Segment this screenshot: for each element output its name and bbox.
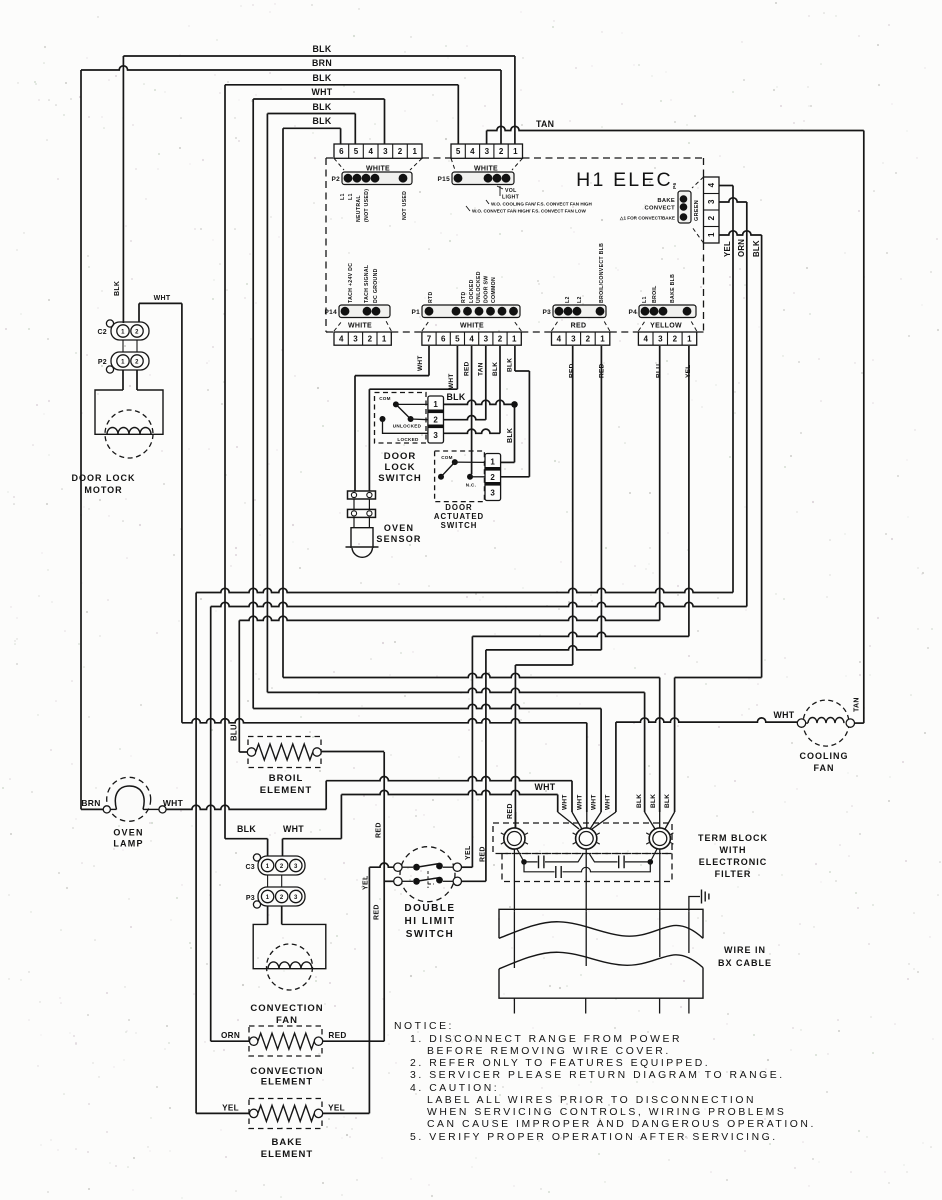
svg-text:1: 1 <box>121 359 125 365</box>
svg-text:CONVECTION: CONVECTION <box>250 1066 323 1077</box>
oven sensor <box>348 491 376 499</box>
wire BLK to C3 pin1 <box>225 838 268 840</box>
svg-text:N.C.: N.C. <box>466 483 476 488</box>
wire BLK P1 pin2 to door lock switch <box>499 346 501 433</box>
svg-text:YEL: YEL <box>723 241 732 257</box>
svg-text:C3: C3 <box>245 864 255 871</box>
svg-text:1: 1 <box>266 895 270 901</box>
term block dashed boxes <box>493 823 672 854</box>
svg-text:1. DISCONNECT RANGE FROM POWE: 1. DISCONNECT RANGE FROM POWER <box>410 1034 682 1045</box>
wire RED down to terminal 1 <box>514 665 516 828</box>
svg-text:CAN CAUSE IMPROPER AND DANGERO: CAN CAUSE IMPROPER AND DANGEROUS OPERATI… <box>427 1119 816 1130</box>
svg-text:SENSOR: SENSOR <box>376 534 421 544</box>
wire RED line D2 <box>486 646 602 650</box>
svg-text:1: 1 <box>490 458 495 467</box>
svg-text:2: 2 <box>490 473 495 482</box>
svg-text:OVEN: OVEN <box>113 828 143 838</box>
connector P14 bottom cells <box>334 332 391 345</box>
wire BRN L2 top <box>81 66 501 70</box>
svg-text:FILTER: FILTER <box>715 869 752 879</box>
svg-text:1: 1 <box>600 335 605 344</box>
svg-text:BLK: BLK <box>507 358 514 372</box>
svg-text:BAKE: BAKE <box>272 1137 303 1148</box>
svg-text:1: 1 <box>382 335 387 344</box>
connector P3 plug <box>553 305 606 318</box>
wire BLK L3 top <box>225 84 458 86</box>
svg-text:4: 4 <box>643 335 648 344</box>
svg-text:BLU: BLU <box>230 724 239 741</box>
wire RED hi-limit row2 right <box>461 880 486 882</box>
svg-text:P2: P2 <box>98 359 107 366</box>
connector P3 bottom cells <box>552 332 610 345</box>
svg-text:BLK: BLK <box>507 428 514 443</box>
svg-text:YEL: YEL <box>328 1104 345 1113</box>
svg-text:UNLOCKED: UNLOCKED <box>476 271 482 303</box>
svg-text:5: 5 <box>455 335 460 344</box>
cooling fan <box>803 700 849 746</box>
svg-text:WHITE: WHITE <box>348 323 372 330</box>
svg-text:4. CAUTION:: 4. CAUTION: <box>410 1083 499 1094</box>
svg-text:5: 5 <box>354 147 359 156</box>
svg-text:WHT: WHT <box>605 794 612 810</box>
svg-text:SWITCH: SWITCH <box>406 929 454 940</box>
wire BLK L1 top <box>123 55 515 57</box>
wire YEL down to hi-limit <box>471 636 473 867</box>
wire BLK line E2 <box>675 677 762 679</box>
svg-text:3: 3 <box>294 864 298 870</box>
svg-text:LOCK: LOCK <box>385 462 416 473</box>
svg-text:CONVECT: CONVECT <box>645 206 676 212</box>
svg-text:5. VERIFY PROPER OPERATION AF: 5. VERIFY PROPER OPERATION AFTER SERVICI… <box>410 1132 778 1143</box>
svg-text:6: 6 <box>339 147 344 156</box>
wire WHT L4 top <box>253 98 384 100</box>
svg-text:7: 7 <box>427 335 432 344</box>
svg-text:3: 3 <box>571 335 576 344</box>
svg-text:DOOR LOCK: DOOR LOCK <box>72 473 136 483</box>
connector C3 <box>258 856 305 875</box>
BX cable sheath band 1 <box>499 909 703 938</box>
svg-text:DC GROUND: DC GROUND <box>373 268 379 303</box>
svg-text:BLK: BLK <box>650 794 657 808</box>
term block terminal 2 <box>576 828 597 849</box>
svg-text:2: 2 <box>498 335 503 344</box>
svg-text:VOL: VOL <box>505 188 517 194</box>
svg-text:2: 2 <box>398 147 403 156</box>
svg-text:YEL: YEL <box>685 364 692 378</box>
wire TAN top <box>487 126 864 130</box>
wire BLK L5 top <box>267 113 355 115</box>
svg-text:BAKE: BAKE <box>657 198 675 204</box>
wire TAN right edge vertical <box>863 131 865 724</box>
door actuated switch connector 123 <box>485 454 501 501</box>
svg-text:2. REFER ONLY TO FEATURES EQU: 2. REFER ONLY TO FEATURES EQUIPPED. <box>410 1058 710 1069</box>
svg-text:BLK: BLK <box>752 240 761 257</box>
svg-text:RED: RED <box>569 363 576 378</box>
wire WHT into term2 x587 <box>586 723 588 812</box>
svg-text:COM: COM <box>379 396 391 401</box>
svg-text:4: 4 <box>470 147 475 156</box>
svg-text:3: 3 <box>383 147 388 156</box>
svg-text:BLK: BLK <box>114 281 121 296</box>
svg-text:NEUTRAL: NEUTRAL <box>356 195 362 222</box>
svg-text:1: 1 <box>266 864 270 870</box>
connector P6 GREEN bake convect <box>704 177 720 243</box>
svg-text:4: 4 <box>469 335 474 344</box>
svg-text:SWITCH: SWITCH <box>441 521 478 530</box>
wire WHT line G <box>253 704 601 708</box>
ground symbol <box>689 897 700 912</box>
connector P15 top cells <box>451 144 523 158</box>
svg-text:3: 3 <box>485 147 490 156</box>
svg-text:WHT: WHT <box>591 794 598 810</box>
svg-text:1: 1 <box>121 329 125 335</box>
wire vertical YEL x196 <box>195 593 197 1114</box>
wire GREEN pin4 YEL <box>719 185 733 187</box>
svg-text:4: 4 <box>368 147 373 156</box>
svg-text:BLK: BLK <box>313 73 332 83</box>
wire GREEN pin3 ORN <box>719 198 747 202</box>
svg-text:BLK: BLK <box>664 794 671 808</box>
svg-text:WHT: WHT <box>154 295 171 302</box>
wire RED P3 pin1 <box>600 346 602 650</box>
svg-text:RED: RED <box>464 361 471 376</box>
svg-text:2: 2 <box>707 215 716 220</box>
svg-text:P1: P1 <box>411 309 420 316</box>
wire vertical BRN left edge <box>80 70 82 809</box>
wire BRN oven lamp left <box>81 808 103 810</box>
svg-text:3: 3 <box>490 489 495 498</box>
svg-text:2: 2 <box>433 415 438 424</box>
wire WHT into term2 x572 <box>571 781 573 812</box>
svg-text:4: 4 <box>707 182 716 187</box>
svg-text:TACH SIGNAL: TACH SIGNAL <box>364 264 370 303</box>
svg-text:BLK: BLK <box>313 116 332 126</box>
svg-text:BRN: BRN <box>312 58 332 68</box>
broil element <box>248 737 321 768</box>
svg-text:LIGHT: LIGHT <box>502 195 520 201</box>
BX cable verticals <box>513 911 515 968</box>
wire stubs into P15 connector top <box>457 85 459 144</box>
wire vertical ORN x211 <box>210 607 212 1042</box>
wire WHT P1 pin7 to oven sensor <box>428 346 430 376</box>
wire YEL bake element left <box>196 1112 250 1114</box>
svg-text:P4: P4 <box>628 309 637 316</box>
convection fan motor <box>267 906 269 924</box>
wire WHT oven lamp line <box>166 805 326 809</box>
wire TAN cooling fan right <box>854 722 864 724</box>
svg-text:RED: RED <box>480 846 487 862</box>
wire YEL bake element right <box>323 1112 370 1114</box>
wire YEL line D <box>472 632 689 636</box>
P15 annotations <box>497 186 503 189</box>
wire WHT into term2 x601 <box>600 709 602 813</box>
filter wiring <box>513 849 515 911</box>
svg-text:DOOR SW: DOOR SW <box>484 276 490 303</box>
svg-text:ORN: ORN <box>737 239 746 257</box>
svg-text:YEL: YEL <box>222 1104 239 1113</box>
svg-text:2: 2 <box>499 147 504 156</box>
svg-text:BLU: BLU <box>656 364 663 378</box>
junction dot BLK <box>511 401 518 408</box>
wire ORN line B <box>211 602 747 606</box>
wire BLK line F <box>267 688 644 692</box>
wire WHT into term2 from cooling fan <box>615 722 617 812</box>
svg-text:BX CABLE: BX CABLE <box>718 958 772 968</box>
svg-text:△1 FOR CONVECT/BAKE: △1 FOR CONVECT/BAKE <box>619 216 675 221</box>
connector P4 plug <box>639 305 696 318</box>
svg-text:RTD: RTD <box>461 291 467 303</box>
svg-text:C2: C2 <box>97 329 107 336</box>
svg-text:2: 2 <box>280 864 284 870</box>
svg-text:TAN: TAN <box>478 362 485 376</box>
door actuated switch <box>435 451 485 502</box>
wire WHT W1 <box>326 777 572 781</box>
wire RED broil to hi-limit row2 <box>384 880 394 882</box>
wire ORN convection element left <box>211 1040 250 1042</box>
svg-text:NOTICE:: NOTICE: <box>394 1021 454 1032</box>
wire door actuated switch pin2 <box>500 476 529 478</box>
svg-text:ELECTRONIC: ELECTRONIC <box>699 857 768 867</box>
door lock motor <box>122 370 124 390</box>
wire WHT W2 <box>341 790 557 794</box>
svg-text:3: 3 <box>707 199 716 204</box>
wire door actuated switch pin1 <box>500 461 515 463</box>
svg-text:CONVECTION: CONVECTION <box>250 1003 323 1014</box>
svg-text:BLK: BLK <box>447 392 466 402</box>
wire BLK door lock switch pin1 <box>444 400 515 404</box>
wire stubs into P2 connector top <box>340 128 342 144</box>
svg-text:2: 2 <box>135 329 139 335</box>
svg-text:2: 2 <box>135 359 139 365</box>
svg-text:P6: P6 <box>672 183 678 189</box>
svg-text:L1: L1 <box>642 296 648 303</box>
svg-text:2: 2 <box>368 335 373 344</box>
svg-text:4: 4 <box>339 335 344 344</box>
svg-text:COM: COM <box>441 455 453 460</box>
wire vertical BLK to C2 <box>122 56 124 323</box>
svg-text:BRN: BRN <box>81 798 100 808</box>
wire WHT from C2 to harness <box>138 303 140 322</box>
svg-text:WHT: WHT <box>312 87 333 97</box>
wire BLK P1 pin1 jog to door actuated switch <box>514 346 516 371</box>
double hi limit switch <box>400 847 455 902</box>
svg-text:WHT: WHT <box>417 355 424 371</box>
wire door lock switch pin2 <box>444 416 486 420</box>
svg-text:TAN: TAN <box>854 697 861 712</box>
wire vertical BLK x283 <box>282 128 284 677</box>
connector P2 plug <box>342 172 412 185</box>
svg-text:FAN: FAN <box>276 1015 298 1026</box>
svg-text:SWITCH: SWITCH <box>378 473 421 484</box>
svg-text:BLK: BLK <box>636 794 643 808</box>
svg-text:2: 2 <box>280 895 284 901</box>
svg-text:WITH: WITH <box>720 845 747 855</box>
svg-text:FAN: FAN <box>814 763 835 773</box>
wire BLK line E <box>283 673 660 677</box>
svg-text:P2: P2 <box>331 176 340 183</box>
wire broil element right RED <box>321 751 384 753</box>
svg-text:RED: RED <box>507 803 514 819</box>
svg-text:3: 3 <box>484 335 489 344</box>
svg-text:RED: RED <box>599 363 606 378</box>
connector P4 bottom cells <box>638 332 696 345</box>
svg-text:5: 5 <box>456 147 461 156</box>
svg-text:BLK: BLK <box>492 362 499 376</box>
wire WHT line H <box>182 719 587 723</box>
wire WHT to cooling fan <box>616 718 798 722</box>
svg-text:RTD: RTD <box>428 291 434 303</box>
svg-text:COMMON: COMMON <box>491 277 497 303</box>
svg-text:P15: P15 <box>438 176 451 183</box>
svg-text:1: 1 <box>412 147 417 156</box>
svg-text:1: 1 <box>687 335 692 344</box>
svg-text:L2: L2 <box>565 296 571 303</box>
connector P15 plug <box>452 172 514 185</box>
term block terminal 3 <box>649 828 670 849</box>
svg-text:3: 3 <box>294 895 298 901</box>
svg-text:3: 3 <box>433 431 438 440</box>
svg-text:UNLOCKED: UNLOCKED <box>393 424 422 429</box>
wire vertical BLK x267 <box>266 114 268 693</box>
svg-text:WHITE: WHITE <box>460 323 484 330</box>
svg-text:WHT: WHT <box>577 794 584 810</box>
wire RED convection element right <box>323 1040 385 1042</box>
svg-text:BEFORE REMOVING WIRE COVER.: BEFORE REMOVING WIRE COVER. <box>427 1046 671 1057</box>
svg-text:3: 3 <box>353 335 358 344</box>
wire BLK into term3 from line F <box>644 692 646 812</box>
svg-text:RED: RED <box>374 904 381 920</box>
svg-text:WHT: WHT <box>163 798 184 808</box>
connector C2 <box>111 322 149 340</box>
BX cable sheath band 2 <box>499 968 703 999</box>
svg-text:RED: RED <box>328 1031 346 1040</box>
svg-text:2: 2 <box>673 335 678 344</box>
svg-text:LABEL ALL WIRES PRIOR TO DISCO: LABEL ALL WIRES PRIOR TO DISCONNECTION <box>427 1095 756 1106</box>
svg-text:YELLOW: YELLOW <box>650 323 682 330</box>
term2 funnel wires <box>558 812 616 829</box>
svg-text:3: 3 <box>658 335 663 344</box>
wire WHT into term2 x557 <box>557 795 559 813</box>
door lock switch <box>375 393 427 444</box>
svg-text:ELEMENT: ELEMENT <box>261 1149 313 1160</box>
wire YEL line A <box>196 588 733 592</box>
control board H1 ELEC dashed outline <box>325 158 327 332</box>
wire BLU P4 pin3 <box>659 346 661 620</box>
svg-text:WHEN SERVICING CONTROLS, WIRIN: WHEN SERVICING CONTROLS, WIRING PROBLEMS <box>427 1107 786 1118</box>
connector P14 plug <box>339 305 390 318</box>
svg-text:HI LIMIT: HI LIMIT <box>405 916 456 927</box>
wire WHT P1 pin5 to oven sensor <box>456 346 458 389</box>
svg-text:1: 1 <box>707 232 716 237</box>
svg-text:3. SERVICER PLEASE RETURN DIA: 3. SERVICER PLEASE RETURN DIAGRAM TO RAN… <box>410 1070 785 1081</box>
svg-text:L2: L2 <box>577 296 583 303</box>
svg-text:2: 2 <box>586 335 591 344</box>
wire vertical BLK x225 <box>224 85 226 839</box>
svg-text:ELEMENT: ELEMENT <box>260 785 312 796</box>
svg-text:OVEN: OVEN <box>384 523 414 533</box>
svg-text:1: 1 <box>513 147 518 156</box>
svg-text:WHT: WHT <box>774 710 795 720</box>
connector P2 motor <box>111 352 149 370</box>
wire GREEN pin1 BLK <box>719 231 762 235</box>
svg-text:BLK: BLK <box>313 44 332 54</box>
svg-text:LAMP: LAMP <box>113 839 143 849</box>
wire RED P1 pin4 to door actuated switch <box>471 346 473 474</box>
wire vertical BLU x239 broil <box>238 620 240 752</box>
svg-text:WHT: WHT <box>448 373 455 389</box>
svg-text:P14: P14 <box>325 309 338 316</box>
term block terminal 1 <box>504 828 525 849</box>
wire door lock switch pin3 <box>444 429 501 433</box>
svg-text:BAKE BLB: BAKE BLB <box>670 274 676 303</box>
connector P2 top cells <box>334 144 422 158</box>
wire YEL P4 pin1 <box>688 346 690 636</box>
svg-text:1: 1 <box>433 400 438 409</box>
wire vertical WHT x253 <box>252 99 254 709</box>
svg-text:TERM BLOCK: TERM BLOCK <box>698 833 768 843</box>
svg-text:DOUBLE: DOUBLE <box>404 903 455 914</box>
svg-text:COOLING: COOLING <box>800 751 849 761</box>
svg-text:WHT: WHT <box>535 782 556 792</box>
svg-text:H1 ELEC: H1 ELEC <box>576 169 673 191</box>
connector P1 bottom cells <box>422 332 521 345</box>
term3 funnel wires <box>645 812 675 829</box>
svg-text:BLK: BLK <box>237 824 256 834</box>
wire YEL hi-limit left <box>369 863 394 867</box>
svg-text:WHT: WHT <box>562 794 569 810</box>
svg-text:RED: RED <box>571 323 587 330</box>
svg-text:P3: P3 <box>246 895 255 902</box>
connector P3 fan <box>258 887 305 906</box>
svg-text:W.O. COOLING FAN/ F.S. CONVECT: W.O. COOLING FAN/ F.S. CONVECT FAN HIGH <box>491 202 592 207</box>
door lock switch connector 123 <box>428 396 444 443</box>
svg-text:MOTOR: MOTOR <box>84 485 122 495</box>
svg-text:DOOR: DOOR <box>445 503 472 512</box>
connector P1 plug <box>422 305 520 318</box>
bake element <box>249 1099 322 1129</box>
svg-text:(NOT USED): (NOT USED) <box>364 189 370 222</box>
svg-text:WHT: WHT <box>283 824 304 834</box>
svg-text:6: 6 <box>441 335 446 344</box>
svg-text:DOOR: DOOR <box>384 451 417 462</box>
svg-text:ELEMENT: ELEMENT <box>261 1077 313 1088</box>
svg-text:LOCKED: LOCKED <box>397 437 419 442</box>
svg-text:GREEN: GREEN <box>694 200 700 221</box>
svg-text:4: 4 <box>557 335 562 344</box>
wire RED P3 pin3 <box>572 346 574 665</box>
svg-text:TACH +24V DC: TACH +24V DC <box>348 263 354 303</box>
wire RED line D3 <box>515 664 572 666</box>
svg-text:P3: P3 <box>542 309 551 316</box>
svg-text:ACTUATED: ACTUATED <box>434 512 484 521</box>
svg-text:BROIL: BROIL <box>269 773 304 784</box>
svg-text:L1: L1 <box>340 193 346 200</box>
wire WHT to C3 pin2 <box>283 838 342 840</box>
svg-text:BROIL: BROIL <box>652 285 658 303</box>
wire RED down to hi-limit <box>485 650 487 881</box>
svg-text:ORN: ORN <box>221 1031 240 1040</box>
wire YEL hi-limit row1 right <box>461 866 472 868</box>
svg-text:TAN: TAN <box>536 119 554 129</box>
svg-text:WIRE IN: WIRE IN <box>724 945 766 955</box>
wire TAN P1 pin3 to door lock switch <box>485 346 487 420</box>
svg-text:YEL: YEL <box>465 845 472 860</box>
svg-text:W.O. CONVECT FAN HIGH/ F.S. CO: W.O. CONVECT FAN HIGH/ F.S. CONVECT FAN … <box>472 209 586 214</box>
BX cable stubs <box>513 998 515 1013</box>
svg-text:1: 1 <box>512 335 517 344</box>
wire BLK into term3 from line E <box>659 678 661 813</box>
svg-text:BROIL/CONVECT BLB: BROIL/CONVECT BLB <box>599 243 605 303</box>
